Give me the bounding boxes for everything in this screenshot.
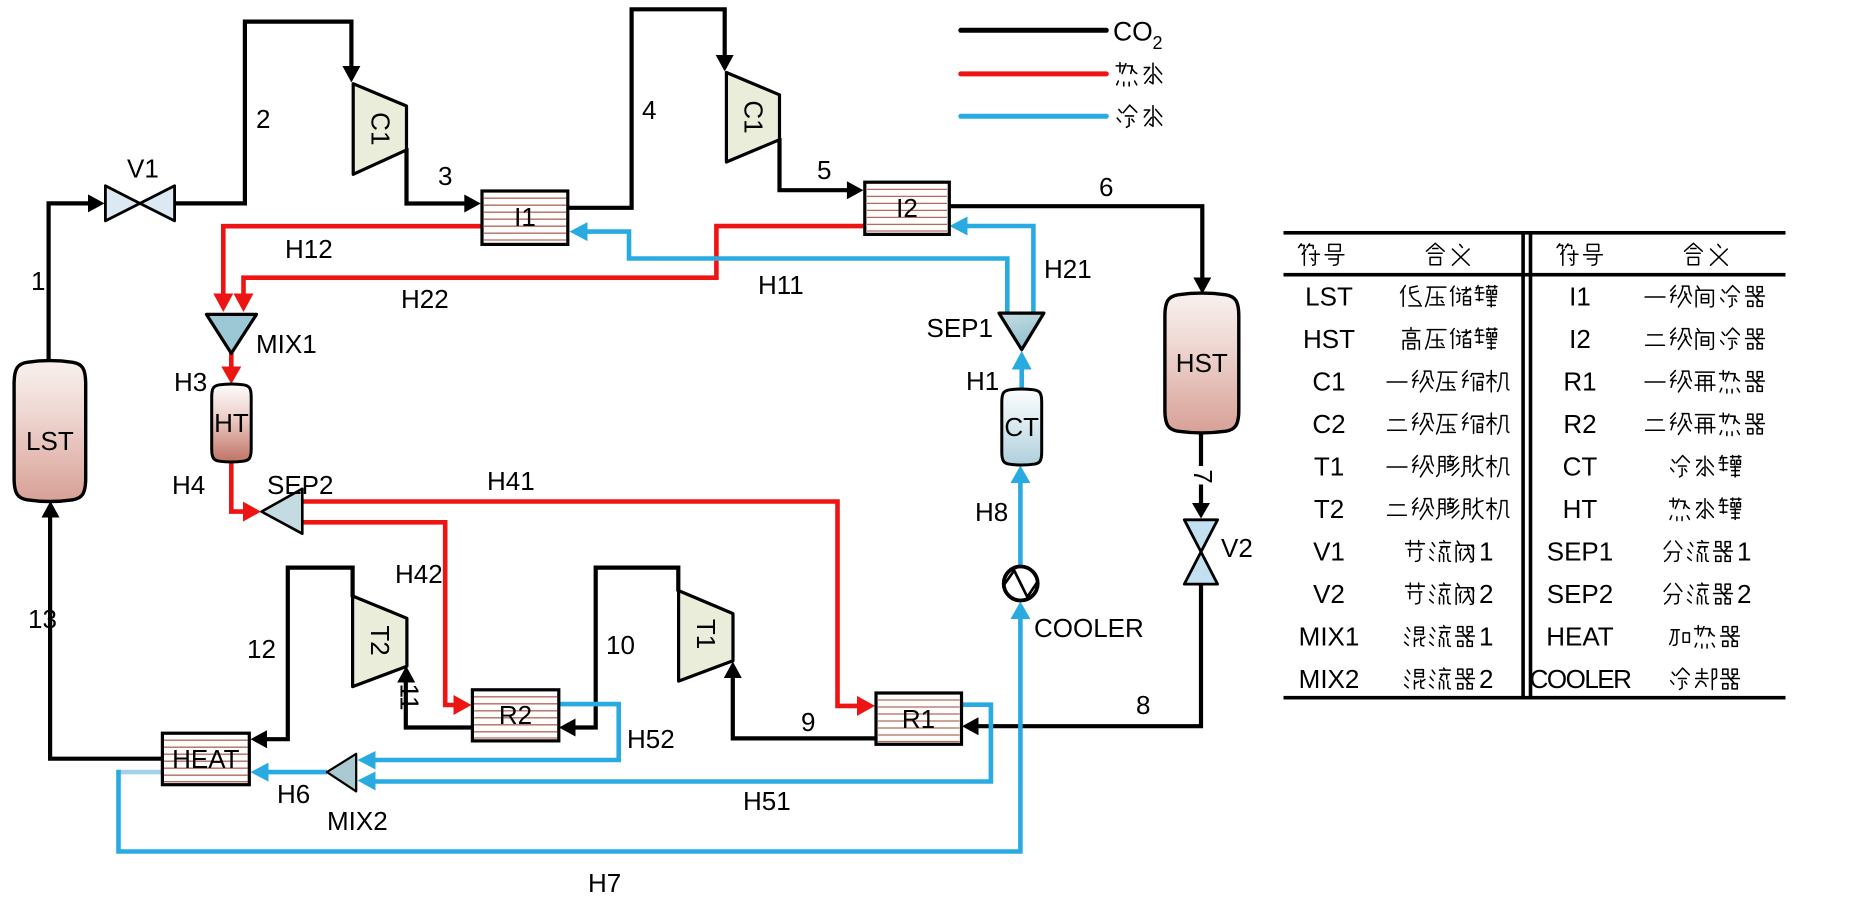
wire 12: T2 to HEAT (CO2) [251,568,353,749]
wire 10: T1 to R2 (CO2) [559,568,678,737]
label H11 [758,270,804,300]
svg-text:3: 3 [438,161,452,191]
svg-text:12: 12 [247,634,276,664]
wire 3: C1 to I1 (CO2) [407,148,481,213]
svg-text:SEP2: SEP2 [1547,579,1614,609]
table row I2 [1569,324,1764,354]
svg-text:CT: CT [1563,452,1598,482]
svg-text:2: 2 [256,104,270,134]
table row C2 [1312,409,1509,439]
svg-text:T1: T1 [691,619,721,649]
label H42 [395,559,443,589]
valve V1 [105,154,174,221]
mixer MIX2 [327,754,388,836]
label H6 [277,779,310,809]
wire H51: R1 to MIX2 (cold water) [358,705,991,791]
cooler COOLER [1004,567,1144,644]
svg-text:1: 1 [1737,537,1751,567]
wire H4: HT to SEP2 (hot water) [231,461,261,522]
wire H3: MIX1 to HT (hot water) [221,352,241,384]
label 12 [247,634,276,664]
svg-text:V1: V1 [127,154,159,184]
intercooler I2 [865,182,950,234]
svg-text:2: 2 [1479,579,1493,609]
svg-text:SEP2: SEP2 [267,470,334,500]
legend line CO2 [961,17,1163,54]
table row V1 [1313,537,1493,567]
wire H52: R2 to MIX2 (cold water) [358,704,619,769]
svg-text:HT: HT [1563,494,1598,524]
svg-text:R1: R1 [1563,367,1596,397]
wire 1: LST to V1 (CO2) [49,194,105,362]
svg-text:2: 2 [1479,664,1493,694]
svg-text:HT: HT [214,408,249,438]
table row SEP2 [1547,579,1752,609]
table row MIX2 [1299,664,1494,694]
label 3 [438,161,452,191]
table row R1 [1563,367,1764,397]
svg-text:HST: HST [1303,324,1355,354]
svg-text:MIX2: MIX2 [327,806,388,836]
wire 5: C2 to I2 (CO2) [780,138,864,199]
label H4 [172,470,205,500]
svg-text:SEP1: SEP1 [1547,537,1614,567]
svg-text:H8: H8 [975,497,1008,527]
svg-text:T2: T2 [1314,494,1344,524]
svg-text:V1: V1 [1313,537,1345,567]
compressor C1 [353,84,406,175]
svg-text:13: 13 [28,604,57,634]
svg-text:H1: H1 [966,366,999,396]
table row V2 [1313,579,1493,609]
svg-text:V2: V2 [1221,533,1253,563]
label H3 [174,367,207,397]
table top border [1284,231,1786,235]
svg-text:R2: R2 [499,700,532,730]
svg-text:I2: I2 [1569,324,1591,354]
table bottom border [1284,696,1786,700]
svg-text:R1: R1 [902,704,935,734]
svg-text:CT: CT [1004,412,1039,442]
svg-text:T2: T2 [365,625,395,655]
svg-text:R2: R2 [1563,409,1596,439]
tank LST [14,361,86,502]
svg-text:2: 2 [1737,579,1751,609]
svg-text:COOLER: COOLER [1530,664,1632,694]
svg-text:11: 11 [395,684,425,711]
label 6 [1099,172,1113,202]
table row HT [1563,494,1741,524]
heater HEAT [162,733,249,785]
wire H22: I2 to MIX1 (hot water) [234,226,865,312]
table row SEP1 [1547,537,1752,567]
wire H11: SEP1 to I1 (cold water) [570,222,1008,313]
separator SEP2 [262,470,334,534]
wire H41: SEP2 to R1 (hot water) [302,502,875,716]
svg-text:MIX1: MIX1 [1299,622,1360,652]
table row CT [1563,452,1741,482]
svg-text:LST: LST [26,426,74,456]
svg-text:H3: H3 [174,367,207,397]
legend line hot water [961,63,1162,86]
svg-text:4: 4 [642,95,656,125]
svg-text:H41: H41 [487,466,535,496]
wire 7: HST to V2 (CO2) with gap [1192,431,1210,519]
svg-text:C1: C1 [1312,367,1345,397]
legend line cold water [961,105,1162,127]
svg-text:H21: H21 [1044,254,1092,284]
label H7 [588,868,621,898]
label 5 [817,155,831,185]
table row C1 [1312,367,1509,397]
svg-text:T1: T1 [1314,452,1344,482]
svg-text:I1: I1 [1569,282,1591,312]
label H1 [966,366,999,396]
table header right: fuhao hanyi [1557,243,1727,265]
svg-text:C1: C1 [739,100,769,133]
wire H1: CT to SEP1 (cold water) [1012,351,1032,390]
wire 9: R1 to T1 (CO2) [724,662,876,739]
table row HEAT [1546,622,1739,652]
svg-text:HEAT: HEAT [1546,622,1614,652]
svg-text:LST: LST [1305,282,1353,312]
label H22 [401,284,449,314]
svg-text:1: 1 [1479,537,1493,567]
label 9 [801,707,815,737]
table double vertical divider [1521,231,1532,700]
valve V2 [1184,520,1253,584]
svg-text:I1: I1 [514,202,536,232]
svg-text:MIX2: MIX2 [1299,664,1360,694]
table row T1 [1314,452,1509,482]
wire 8: V2 to R1 (CO2) [962,584,1201,735]
svg-text:H22: H22 [401,284,449,314]
wire 11: R2 to T2 (CO2) [397,666,472,728]
svg-text:2: 2 [1153,33,1163,53]
wire H12: I1 to MIX1 (hot water) [213,226,482,312]
label 11 rotated [395,684,425,711]
svg-text:C2: C2 [1312,409,1345,439]
svg-text:H42: H42 [395,559,443,589]
svg-text:COOLER: COOLER [1034,613,1144,643]
wire H7 pale stub at HEAT left [118,770,162,775]
svg-text:H7: H7 [588,868,621,898]
label 13 [28,604,57,634]
label 8 [1136,690,1150,720]
table header left: fuhao hanyi [1299,243,1470,265]
table row LST [1305,282,1497,312]
label 1 [31,266,45,296]
tank HST [1165,293,1239,433]
table header underline [1284,273,1786,277]
label 10 [606,630,635,660]
label H21 [1044,254,1092,284]
table row R2 [1563,409,1764,439]
tank HT [212,384,252,462]
svg-text:H51: H51 [743,786,791,816]
table row MIX1 [1299,622,1494,652]
svg-text:10: 10 [606,630,635,660]
svg-text:6: 6 [1099,172,1113,202]
wire 4: I1 to C2 (CO2) [567,9,734,208]
table row I1 [1569,282,1764,312]
wire H42: SEP2 to R2 (hot water) [302,522,471,715]
label H41 [487,466,535,496]
svg-text:SEP1: SEP1 [927,313,994,343]
turbine T2 [353,596,407,687]
wire H7: HEAT to COOLER (cold water) [119,602,1031,852]
label 2 [256,104,270,134]
svg-text:HST: HST [1176,348,1228,378]
label 4 [642,95,656,125]
svg-text:1: 1 [1479,622,1493,652]
label H51 [743,786,791,816]
svg-text:9: 9 [801,707,815,737]
svg-text:C1: C1 [366,112,396,145]
compressor C2 (labelled C1) [726,73,779,163]
wire 2: V1 to C1 (CO2) [173,22,360,204]
table row COOLER [1530,664,1740,694]
svg-text:8: 8 [1136,690,1150,720]
mixer MIX1 [206,314,316,359]
svg-text:H52: H52 [627,724,675,754]
svg-text:7: 7 [1188,469,1218,483]
svg-text:CO: CO [1113,17,1153,47]
svg-text:V2: V2 [1313,579,1345,609]
reheater R1 [876,693,962,744]
reheater R2 [472,690,558,741]
wire H6: MIX2 to HEAT (cold water) [251,763,327,782]
svg-text:1: 1 [31,266,45,296]
wire 13: HEAT to LST (CO2) [42,501,163,759]
turbine T1 [679,591,733,682]
svg-text:I2: I2 [896,193,918,223]
svg-text:H11: H11 [758,270,804,300]
wire 6: I2 to HST (CO2) [949,206,1212,294]
svg-text:MIX1: MIX1 [256,329,317,359]
svg-text:5: 5 [817,155,831,185]
separator SEP1 [927,313,1044,350]
wire H8: COOLER to CT (cold water) [1010,466,1030,566]
wire H21: SEP1 to I2 (cold water) [950,217,1034,314]
label H8 [975,497,1008,527]
label H52 [627,724,675,754]
svg-text:H12: H12 [285,234,333,264]
table row T2 [1314,494,1509,524]
label 7 rotated [1188,469,1218,483]
svg-text:H6: H6 [277,779,310,809]
tank CT [1002,389,1042,465]
svg-text:HEAT: HEAT [172,744,240,774]
label H12 [285,234,333,264]
table row HST [1303,324,1497,354]
intercooler I1 [482,191,568,244]
svg-text:H4: H4 [172,470,205,500]
